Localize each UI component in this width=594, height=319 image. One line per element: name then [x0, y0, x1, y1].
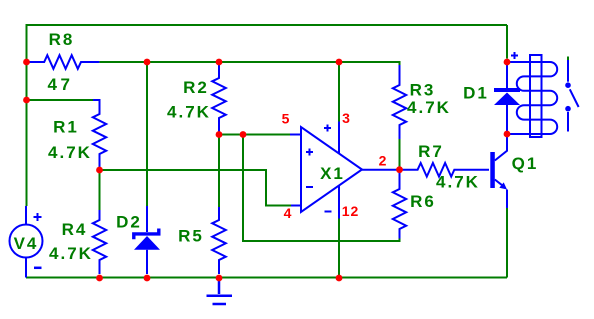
wire top rail — [26, 24, 507, 26]
svg-text:X1: X1 — [320, 164, 345, 183]
wire top rail down to D1 node — [506, 25, 508, 59]
op-amp power minus marker — [325, 211, 332, 213]
diode D2 lead bottom — [146, 250, 148, 274]
wire node pin5 (y=134.5) — [219, 134, 290, 136]
svg-text:47: 47 — [48, 75, 74, 94]
wire emitter to ground rail — [506, 208, 508, 278]
op-amp pin12 lead — [338, 186, 340, 219]
svg-text:4.7K: 4.7K — [407, 98, 451, 117]
junction dot R5 ground — [216, 275, 223, 282]
source V4 circle — [10, 225, 43, 258]
junction dot rail-R1 — [23, 97, 30, 104]
junction dot feedback node — [240, 131, 247, 138]
relay switch pole dot top — [565, 82, 571, 88]
diode D1 triangle — [494, 93, 520, 106]
wire pin12 to ground rail — [338, 219, 340, 278]
svg-text:R8: R8 — [49, 30, 75, 49]
relay coil plus marker — [511, 52, 518, 59]
svg-text:4.7K: 4.7K — [436, 172, 480, 191]
svg-text:D2: D2 — [116, 212, 142, 231]
diode D2 zener bar — [134, 229, 159, 240]
wire switch top stub — [567, 57, 569, 61]
wire feedback loop R6 to pin5 node — [243, 135, 400, 242]
op-amp pin4 lead — [291, 205, 301, 207]
resistor R4 — [93, 210, 106, 274]
resistor R8 — [29, 55, 99, 69]
wire R2 bottom to R5 top — [218, 135, 220, 208]
relay switch blade — [570, 89, 579, 107]
resistor R5 — [212, 207, 226, 274]
svg-text:Q1: Q1 — [512, 154, 539, 173]
wire left rail — [26, 24, 28, 206]
junction dot D1 bottom — [504, 131, 511, 138]
wire pin3 to rail — [338, 62, 340, 122]
op-amp input plus marker — [306, 149, 313, 156]
op-amp U X1 triangle — [301, 127, 362, 212]
resistor R7 and op-amp output wire — [362, 163, 489, 177]
junction dot R1 bottom — [96, 167, 103, 174]
svg-text:4.7K: 4.7K — [167, 102, 211, 121]
source V4 plus marker — [34, 213, 42, 221]
svg-text:4.7K: 4.7K — [49, 244, 93, 263]
junction dot output node 2 — [396, 166, 403, 173]
ground symbol — [207, 278, 233, 304]
diode D2 lead top — [146, 206, 148, 232]
junction dot pin3 rail — [336, 59, 343, 66]
op-amp power plus marker — [324, 125, 331, 132]
transistor Q1 collector — [495, 134, 507, 161]
wire node R1 bottom to op-amp pin4 — [100, 170, 292, 206]
svg-text:4: 4 — [284, 205, 293, 221]
svg-text:2: 2 — [379, 153, 388, 169]
diode D1 cathode bar — [494, 88, 520, 92]
svg-text:R6: R6 — [410, 192, 436, 211]
svg-text:V4: V4 — [14, 234, 39, 253]
transistor Q1 emitter — [495, 180, 507, 209]
resistor R2 — [212, 65, 226, 132]
junction dot R4 ground — [96, 275, 103, 282]
wire R1 bottom to R4 top — [99, 170, 101, 210]
diode D1 lead bottom — [506, 105, 508, 131]
relay switch contact bottom — [567, 112, 569, 132]
junction dot R2 top — [216, 59, 223, 66]
svg-text:R5: R5 — [178, 227, 204, 246]
relay switch pole dot bottom — [565, 106, 571, 112]
junction dot D1 top — [504, 59, 511, 66]
junction dot pin12 ground — [336, 275, 343, 282]
svg-text:5: 5 — [282, 111, 291, 127]
svg-text:R1: R1 — [53, 118, 79, 137]
svg-text:D1: D1 — [463, 83, 489, 102]
svg-text:4.7K: 4.7K — [48, 143, 92, 162]
svg-text:R4: R4 — [62, 220, 88, 239]
svg-text:R2: R2 — [183, 78, 209, 97]
wire bottom ground rail — [26, 277, 507, 279]
wire V4 bottom lead — [25, 258, 27, 278]
transistor Q1 emitter arrowhead — [499, 182, 507, 189]
relay coil K1 — [507, 62, 557, 134]
wire R3 bottom to output node — [399, 139, 401, 170]
relay switch contact top — [567, 60, 569, 82]
junction dot R2 bottom — [216, 131, 223, 138]
wire rail to D2 — [146, 62, 148, 206]
junction dot D2 ground — [144, 275, 151, 282]
svg-text:R3: R3 — [410, 80, 436, 99]
wire V4 top lead — [25, 206, 27, 224]
resistor R6 — [393, 172, 406, 239]
op-amp pin5 lead — [290, 134, 301, 136]
junction dot rail-R8 left — [23, 59, 30, 66]
source V4 minus marker — [34, 267, 42, 270]
svg-text:3: 3 — [342, 110, 351, 126]
junction dot D2 top — [144, 59, 151, 66]
diode D2 triangle — [134, 236, 160, 250]
relay core rectangle — [530, 55, 542, 137]
wire R1 top (y=100) — [27, 99, 94, 101]
wire net rail y=62 (R8 right to R3) — [99, 62, 399, 66]
op-amp input minus marker — [306, 186, 313, 188]
resistor R3 — [393, 65, 406, 139]
resistor R1 — [93, 100, 106, 167]
transistor Q1 base bar — [490, 152, 495, 188]
svg-text:12: 12 — [342, 203, 360, 219]
op-amp pin3 lead — [338, 122, 340, 154]
diode D1 lead top — [506, 65, 508, 88]
svg-text:R7: R7 — [418, 142, 444, 161]
